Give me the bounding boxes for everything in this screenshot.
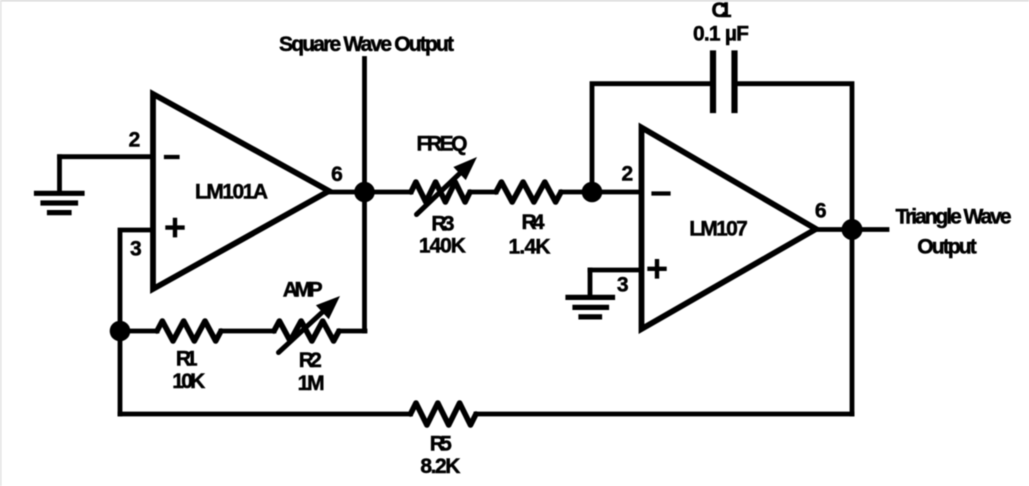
op-amp U1 LM101A triangle <box>153 94 329 289</box>
svg-text:LM101A: LM101A <box>195 181 268 204</box>
svg-text:Output: Output <box>917 236 977 259</box>
resistor R3 arrow shaft <box>417 172 462 215</box>
op-amp U2 minus sign <box>654 191 669 195</box>
svg-text:3: 3 <box>130 238 142 261</box>
svg-text:R1: R1 <box>176 348 198 371</box>
svg-text:AMP: AMP <box>283 279 323 302</box>
wire R1 to R2 <box>221 329 274 334</box>
svg-text:8.2K: 8.2K <box>420 455 460 478</box>
ground GND1 stem <box>57 157 62 191</box>
node B dot (U2 pin2) <box>582 182 603 203</box>
svg-text:1.4K: 1.4K <box>509 236 551 259</box>
node C dot (U2 output) <box>842 219 863 240</box>
svg-text:R4: R4 <box>522 211 545 234</box>
op-amp U2 plus sign <box>650 261 665 276</box>
scan edge top <box>0 0 1029 2</box>
resistor R3 arrow head <box>453 157 477 180</box>
node A dot (U1 output) <box>354 182 375 203</box>
wire right vertical down <box>850 230 855 415</box>
svg-text:Square Wave Output: Square Wave Output <box>279 33 454 56</box>
wire bottom right segment <box>476 412 852 417</box>
resistor R3 zigzag (variable) <box>411 182 470 202</box>
wire U2 pin3 input <box>590 268 642 273</box>
svg-text:6: 6 <box>331 163 343 186</box>
capacitor C1 right plate <box>731 54 737 111</box>
svg-text:0.1 µF: 0.1 µF <box>693 23 749 46</box>
svg-text:3: 3 <box>617 274 629 297</box>
node D dot (bottom left) <box>110 321 131 342</box>
wire U1 output to R3 <box>329 190 411 195</box>
resistor R4 zigzag <box>496 182 561 202</box>
resistor R2 arrow head <box>316 296 340 319</box>
resistor R2 zigzag (variable) <box>274 321 339 341</box>
svg-text:C1: C1 <box>712 0 732 22</box>
svg-text:140K: 140K <box>419 235 466 258</box>
ground GND1 bars <box>37 193 83 212</box>
wire node B up and top left <box>592 84 710 192</box>
svg-text:R3: R3 <box>431 212 454 235</box>
svg-text:6: 6 <box>815 199 827 222</box>
wire node D to R1 <box>120 329 157 334</box>
wire U2 output <box>816 227 887 232</box>
svg-text:LM107: LM107 <box>689 218 748 241</box>
wire C1 to right vertical <box>738 84 853 230</box>
resistor R5 zigzag <box>411 403 477 425</box>
svg-text:FREQ: FREQ <box>417 133 468 156</box>
wire bottom with resistor R5 zigzag <box>120 412 411 417</box>
wire U1 pin3 input and left vertical <box>120 230 153 414</box>
op-amp U1 minus sign <box>166 155 178 159</box>
ground GND2 stem <box>588 270 593 295</box>
op-amp U1 plus sign <box>168 220 183 235</box>
resistor R1 zigzag <box>157 321 221 341</box>
op-amp U2 LM107 triangle <box>642 128 817 330</box>
svg-text:R2: R2 <box>299 349 322 372</box>
svg-text:R5: R5 <box>430 433 452 456</box>
ground GND2 bars <box>568 297 613 317</box>
svg-text:2: 2 <box>621 162 633 185</box>
svg-text:Triangle Wave: Triangle Wave <box>896 206 1012 229</box>
scan edge left <box>0 0 2 486</box>
capacitor C1 left plate <box>710 54 716 111</box>
svg-text:2: 2 <box>129 129 141 152</box>
resistor R2 arrow shaft <box>279 310 325 352</box>
wire square wave vertical <box>362 59 367 332</box>
wire R3 to R4 <box>470 190 496 195</box>
wire R2 to vertical corner <box>339 329 365 334</box>
svg-text:1M: 1M <box>298 372 325 395</box>
svg-text:10K: 10K <box>172 370 205 393</box>
wire U1 pin2 input <box>60 154 154 159</box>
wire R4 to U2 pin2 <box>561 190 642 195</box>
